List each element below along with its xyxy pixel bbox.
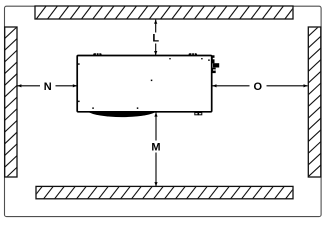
wall top (hatched) — [35, 6, 293, 19]
svg-text:L: L — [152, 33, 159, 45]
unit feet (bottom right) — [195, 113, 202, 115]
unit body (top view) — [77, 56, 212, 112]
wall bottom (hatched) — [36, 186, 293, 198]
unit valve bracket (right side top) — [212, 55, 219, 73]
unit front grille arc — [87, 111, 157, 117]
dimension arrow N — [17, 85, 76, 87]
svg-text:N: N — [44, 81, 52, 93]
dimension arrow L — [155, 20, 157, 55]
wall left (hatched) — [5, 27, 17, 177]
dimension arrow O — [213, 85, 308, 87]
wall right (hatched) — [308, 27, 321, 177]
svg-text:M: M — [151, 142, 160, 154]
unit handle left — [93, 53, 101, 56]
dimension arrow M — [155, 113, 157, 187]
unit screws / dots — [78, 58, 210, 109]
unit handle right — [189, 53, 197, 56]
svg-text:O: O — [254, 81, 263, 93]
